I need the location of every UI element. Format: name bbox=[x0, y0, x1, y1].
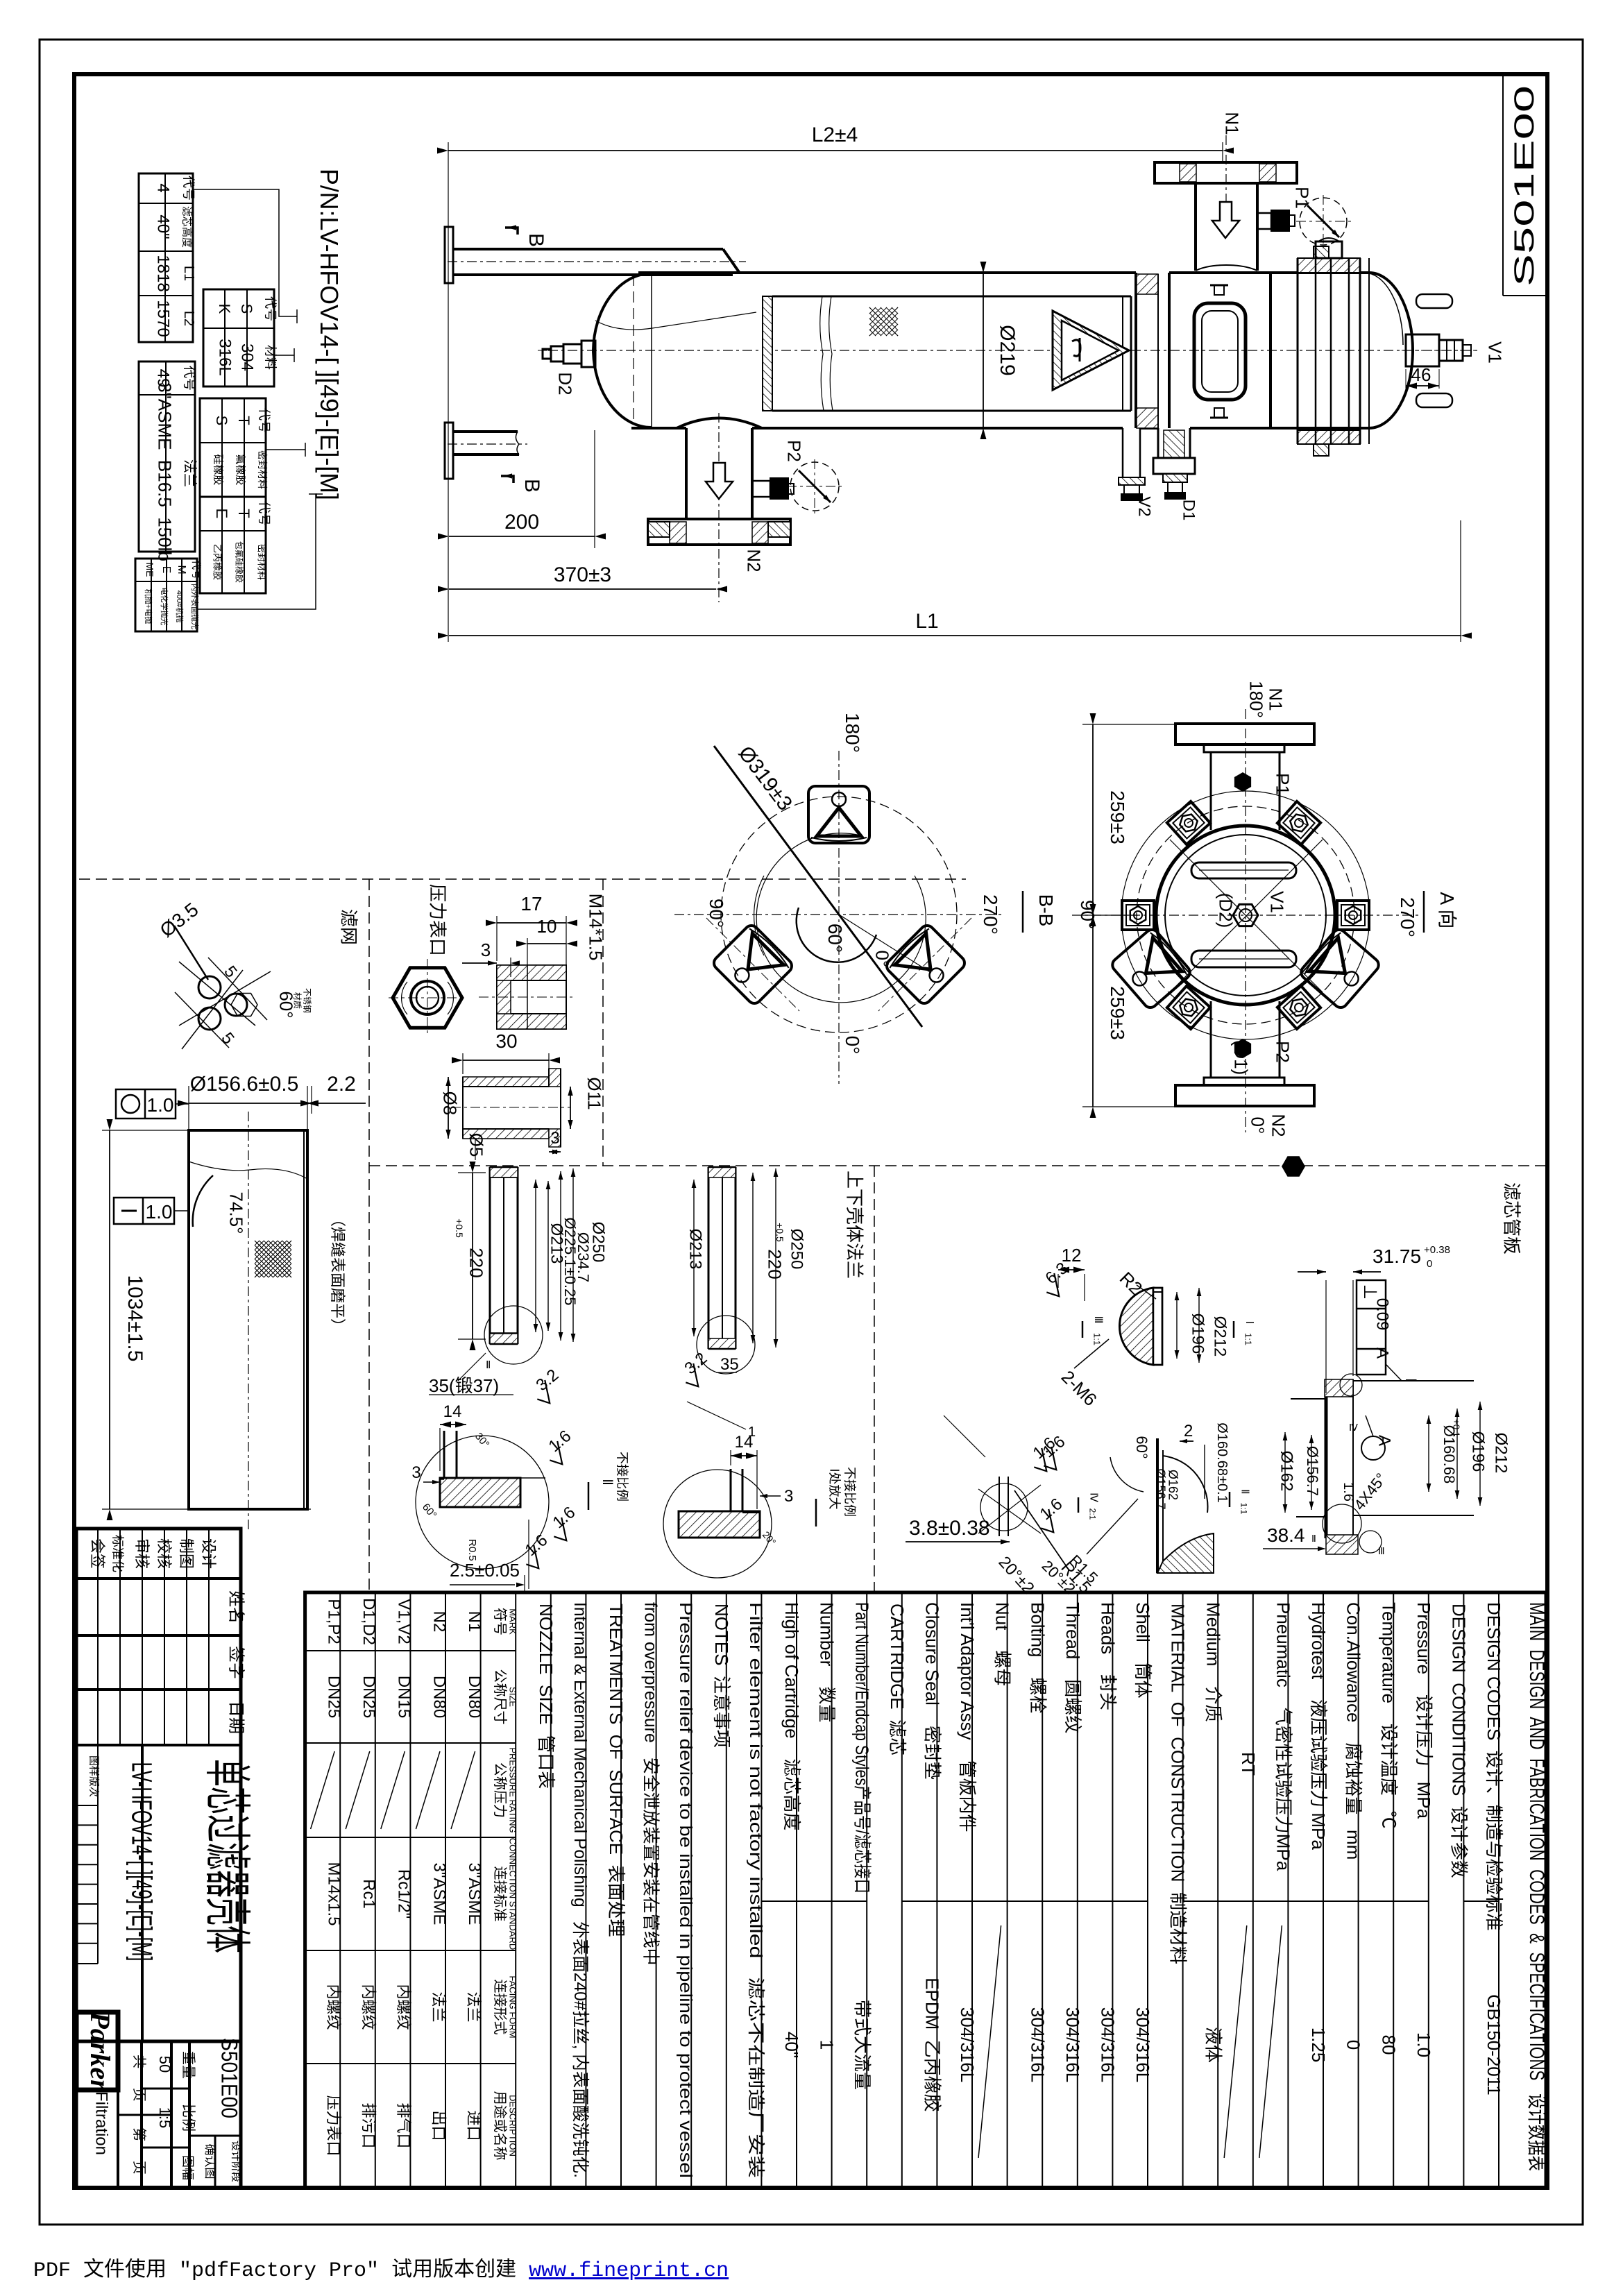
svg-text:3.8±0.38: 3.8±0.38 bbox=[909, 1517, 990, 1540]
svg-text:S: S bbox=[238, 304, 255, 314]
svg-text:硅橡胶: 硅橡胶 bbox=[212, 454, 223, 485]
title block outline bbox=[76, 1529, 241, 2188]
svg-text:Internal & External Mechanical: Internal & External Mechanical Polishing… bbox=[570, 1602, 590, 2178]
svg-text:Rc1/2": Rc1/2" bbox=[395, 1869, 414, 1919]
svg-text:Ø156.7: Ø156.7 bbox=[1304, 1446, 1321, 1496]
svg-text:+0.1: +0.1 bbox=[1452, 1419, 1462, 1437]
svg-text:Shell 筒体: Shell 筒体 bbox=[1132, 1602, 1153, 1699]
svg-text:1.0: 1.0 bbox=[146, 1201, 173, 1223]
svg-text:V2: V2 bbox=[1135, 496, 1154, 516]
svg-text:220: 220 bbox=[764, 1249, 785, 1279]
svg-text:17: 17 bbox=[520, 893, 542, 915]
svg-text:内螺纹: 内螺纹 bbox=[395, 1984, 412, 2030]
section B-B diagonals bbox=[1170, 840, 1323, 992]
svg-text:进口: 进口 bbox=[465, 2110, 482, 2141]
svg-text:ME: ME bbox=[144, 563, 155, 577]
svg-text:+0.5: +0.5 bbox=[454, 1218, 465, 1238]
svg-text:Ø250: Ø250 bbox=[589, 1222, 608, 1263]
N2 flange bbox=[648, 519, 790, 545]
svg-text:公称尺寸: 公称尺寸 bbox=[492, 1669, 508, 1725]
svg-text:不接比例: 不接比例 bbox=[615, 1452, 629, 1502]
svg-text:14: 14 bbox=[443, 1402, 462, 1421]
svg-text:V1,V2: V1,V2 bbox=[395, 1599, 414, 1644]
svg-text:标准化: 标准化 bbox=[110, 1535, 124, 1572]
svg-text:0: 0 bbox=[1427, 1258, 1432, 1270]
svg-text:35(锻37): 35(锻37) bbox=[429, 1375, 499, 1396]
svg-text:259±3: 259±3 bbox=[1107, 790, 1128, 844]
warning plates B-B bbox=[1110, 927, 1193, 1010]
svg-text:Hydrotest 液压试验压力 MPa: Hydrotest 液压试验压力 MPa bbox=[1308, 1602, 1329, 1850]
detail II dims bbox=[439, 1428, 441, 1471]
svg-text:N1: N1 bbox=[1265, 688, 1286, 711]
svg-text:DN15: DN15 bbox=[395, 1676, 414, 1718]
svg-text:0°: 0° bbox=[1247, 1117, 1268, 1134]
svg-text:Parker: Parker bbox=[85, 2011, 116, 2091]
svg-text:304/316L: 304/316L bbox=[1097, 2007, 1118, 2082]
svg-text:3: 3 bbox=[411, 1463, 420, 1482]
svg-text:3: 3 bbox=[481, 939, 491, 960]
svg-text:K: K bbox=[216, 304, 233, 314]
svg-text:High of Cartridge 滤芯高度: High of Cartridge 滤芯高度 bbox=[781, 1602, 802, 1830]
svg-text:材质: 材质 bbox=[292, 992, 302, 1009]
svg-text:I处放大: I处放大 bbox=[827, 1468, 841, 1509]
svg-text:1:1: 1:1 bbox=[1092, 1333, 1103, 1345]
svg-text:（焊缝表面磨平）: （焊缝表面磨平） bbox=[329, 1211, 346, 1334]
svg-text:设计: 设计 bbox=[200, 1538, 217, 1569]
svg-text:14: 14 bbox=[735, 1433, 754, 1452]
title block bottom band bbox=[76, 2040, 241, 2043]
dimension 200 bbox=[594, 430, 595, 548]
svg-text:304/316L: 304/316L bbox=[1027, 2007, 1048, 2082]
svg-text:代号: 代号 bbox=[263, 296, 277, 321]
section pipe B lower bbox=[445, 423, 453, 479]
svg-text:0: 0 bbox=[1343, 2040, 1364, 2050]
svg-text:图样版次: 图样版次 bbox=[87, 1755, 99, 1797]
hex node on dashed line bbox=[1282, 1156, 1305, 1176]
B-B nozzle N2 bbox=[1175, 1085, 1314, 1106]
svg-text:V1: V1 bbox=[1484, 341, 1505, 364]
svg-text:E: E bbox=[213, 509, 230, 519]
svg-text:MAIN DESIGN AND FABRICATION: MAIN DESIGN AND FABRICATION CODES & SPEC… bbox=[1525, 1602, 1548, 2171]
svg-text:Ⅲ: Ⅲ bbox=[1378, 1545, 1385, 1556]
svg-text:Ø5: Ø5 bbox=[466, 1133, 486, 1157]
section B-B centerlines bbox=[1245, 709, 1246, 1132]
closure flange mid bbox=[1135, 273, 1137, 428]
svg-text:180°: 180° bbox=[842, 713, 863, 753]
svg-text:1.0: 1.0 bbox=[1413, 2032, 1434, 2057]
svg-text:NOTES 注意事项: NOTES 注意事项 bbox=[711, 1604, 732, 1748]
svg-text:304/316L: 304/316L bbox=[1132, 2007, 1153, 2082]
tube sheet dims bbox=[1284, 1432, 1286, 1513]
tube weld arc 74.5 bbox=[193, 1175, 213, 1227]
tube sheet half disc detail bbox=[1119, 1288, 1153, 1365]
svg-text:Filter element is not factory: Filter element is not factory installed … bbox=[746, 1602, 765, 2178]
svg-text:Ⅱ: Ⅱ bbox=[486, 1359, 491, 1371]
svg-text:1034±1.5: 1034±1.5 bbox=[124, 1275, 146, 1362]
svg-text:304: 304 bbox=[238, 343, 257, 371]
svg-text:(D1): (D1) bbox=[1230, 1040, 1251, 1075]
drawing number stamp box S501E00 bbox=[1502, 76, 1504, 296]
svg-text:Pneumatic 气密性试验压力MPa: Pneumatic 气密性试验压力MPa bbox=[1273, 1602, 1293, 1871]
nozzle D2 bbox=[581, 341, 595, 367]
svg-text:1:5: 1:5 bbox=[156, 2107, 173, 2129]
drawing title text bbox=[201, 1759, 253, 1953]
svg-text:R0.5: R0.5 bbox=[466, 1539, 478, 1561]
svg-text:代号: 代号 bbox=[181, 176, 195, 201]
edge detail dims bbox=[1180, 1440, 1193, 1442]
section marker B upper bbox=[505, 228, 518, 235]
nozzle V2 drain bbox=[1122, 428, 1124, 477]
tube mesh symbol bbox=[255, 1241, 291, 1277]
svg-text:符号: 符号 bbox=[492, 1608, 508, 1635]
svg-text:氟橡胶: 氟橡胶 bbox=[234, 454, 246, 485]
svg-text:日期: 日期 bbox=[227, 1701, 246, 1734]
60 degree arc bbox=[797, 908, 876, 962]
svg-text:M: M bbox=[176, 565, 187, 574]
dims bushing upper bbox=[496, 916, 498, 961]
svg-text:NOZZLE SIZE 管口表: NOZZLE SIZE 管口表 bbox=[536, 1604, 556, 1789]
svg-text:316L: 316L bbox=[216, 339, 235, 375]
svg-text:Con.Allowance 腐蚀裕量 mm: Con.Allowance 腐蚀裕量 mm bbox=[1343, 1602, 1364, 1860]
svg-text:Medium 介质: Medium 介质 bbox=[1203, 1602, 1223, 1722]
svg-text:0°: 0° bbox=[842, 1036, 863, 1055]
svg-text:P1: P1 bbox=[1291, 187, 1312, 209]
svg-text:图幅: 图幅 bbox=[180, 2155, 194, 2180]
svg-text:D1,D2: D1,D2 bbox=[359, 1598, 378, 1645]
flow arrow N2 bbox=[706, 463, 733, 499]
dimension 370 bbox=[449, 588, 716, 590]
svg-text:3"ASME: 3"ASME bbox=[430, 1863, 448, 1925]
flange left weld balloon bbox=[484, 1306, 543, 1364]
svg-text:L2: L2 bbox=[181, 311, 196, 326]
B-B nozzle N1 bbox=[1175, 724, 1314, 745]
svg-text:from overpressure 安全泄放装置安装在管: from overpressure 安全泄放装置安装在管线中 bbox=[640, 1602, 660, 1966]
svg-text:12: 12 bbox=[1062, 1245, 1082, 1266]
svg-text:Part Number/Endcap Styles产品号/滤: Part Number/Endcap Styles产品号/滤芯接口 bbox=[851, 1602, 872, 1894]
svg-text:Ø160.68±0.1: Ø160.68±0.1 bbox=[1214, 1422, 1230, 1503]
svg-text:Ⅳ: Ⅳ bbox=[1349, 1422, 1358, 1433]
svg-text:Ⅱ: Ⅱ bbox=[1311, 1533, 1316, 1544]
dimension phi219 bbox=[902, 272, 999, 273]
svg-text:Ⅳ: Ⅳ bbox=[1087, 1493, 1099, 1502]
orientation inner arcs bbox=[754, 876, 764, 955]
svg-text:TREATMENTS OF SURFACE 表面处理: TREATMENTS OF SURFACE 表面处理 bbox=[606, 1604, 627, 1937]
svg-text:Ø156.7: Ø156.7 bbox=[1153, 1468, 1167, 1509]
svg-text:Ø11: Ø11 bbox=[584, 1077, 604, 1109]
svg-text:V1: V1 bbox=[1266, 891, 1287, 913]
svg-text:Ø8: Ø8 bbox=[439, 1091, 460, 1116]
svg-text:Temperature 设计温度 ℃: Temperature 设计温度 ℃ bbox=[1378, 1602, 1399, 1829]
nozzle N2 bbox=[685, 428, 688, 519]
svg-text:S501E00: S501E00 bbox=[217, 2038, 243, 2118]
gauge boss on closure bbox=[1316, 241, 1342, 258]
corner weld detail II bbox=[416, 1436, 549, 1569]
closure flange right bbox=[1269, 273, 1272, 428]
pressure gauge P1 bbox=[1257, 213, 1271, 229]
svg-text:Ø219: Ø219 bbox=[996, 325, 1019, 375]
dims tube lower bbox=[462, 1053, 464, 1074]
svg-text:Ø196: Ø196 bbox=[1469, 1431, 1488, 1472]
svg-text:P/N:LV-HFOV14-[ ][49]-[E]-[M]: P/N:LV-HFOV14-[ ][49]-[E]-[M] bbox=[315, 169, 343, 500]
svg-text:连接形式: 连接形式 bbox=[492, 1980, 508, 2035]
svg-text:PDF 文件使用 "pdfFactory Pro" 试用版本: PDF 文件使用 "pdfFactory Pro" 试用版本创建 www.fin… bbox=[33, 2258, 729, 2283]
svg-text:1.0: 1.0 bbox=[147, 1094, 174, 1116]
svg-text:代号: 代号 bbox=[257, 408, 271, 433]
flange right dims bbox=[693, 1180, 695, 1336]
svg-text:P1: P1 bbox=[1272, 773, 1293, 795]
nozzle D1 drain bbox=[1157, 428, 1159, 458]
svg-text:+0.38: +0.38 bbox=[1424, 1244, 1450, 1256]
svg-text:Heads 封头: Heads 封头 bbox=[1097, 1602, 1118, 1710]
svg-text:40": 40" bbox=[154, 214, 173, 239]
svg-text:Ø156.6±0.5: Ø156.6±0.5 bbox=[190, 1073, 299, 1096]
svg-text:Ⅱ: Ⅱ bbox=[600, 1479, 615, 1486]
svg-text:内外表面抛光: 内外表面抛光 bbox=[190, 584, 200, 629]
screen leader phi3.5 bbox=[174, 926, 208, 980]
svg-text:密封材料: 密封材料 bbox=[257, 450, 268, 489]
svg-text:DN80: DN80 bbox=[465, 1676, 484, 1718]
svg-text:90°: 90° bbox=[706, 899, 727, 928]
svg-text:乙丙橡胶: 乙丙橡胶 bbox=[212, 544, 223, 580]
flow arrow N1 bbox=[1212, 202, 1239, 238]
svg-text:(D2): (D2) bbox=[1215, 893, 1236, 928]
svg-text:1:1: 1:1 bbox=[1239, 1503, 1248, 1515]
svg-text:Ⅱ: Ⅱ bbox=[1239, 1489, 1250, 1494]
svg-text:D2: D2 bbox=[554, 372, 575, 395]
P/N table seal material 1 bbox=[200, 398, 266, 497]
svg-text:Rc1: Rc1 bbox=[359, 1879, 378, 1909]
svg-text:60°: 60° bbox=[824, 924, 846, 953]
construction dashed line long middle bbox=[369, 1165, 1546, 1166]
filter cartridge bbox=[763, 296, 772, 411]
svg-text:单芯过滤器壳体: 单芯过滤器壳体 bbox=[201, 1759, 253, 1953]
svg-text:Closure Seal 密封垫: Closure Seal 密封垫 bbox=[921, 1602, 942, 1780]
flange right weld balloon bbox=[697, 1316, 755, 1374]
svg-text:A 向: A 向 bbox=[1436, 892, 1458, 929]
svg-text:FACING FORM: FACING FORM bbox=[508, 1975, 518, 2038]
nozzle V1 bbox=[1406, 334, 1439, 366]
svg-text:上下壳体法兰: 上下壳体法兰 bbox=[844, 1171, 865, 1279]
svg-text:L1: L1 bbox=[181, 266, 196, 281]
svg-text:DESIGN CONDITIONS 设计参数: DESIGN CONDITIONS 设计参数 bbox=[1448, 1604, 1469, 1878]
svg-text:220: 220 bbox=[466, 1248, 486, 1277]
datum circle A bbox=[1361, 1436, 1385, 1460]
svg-text:电化学抛光: 电化学抛光 bbox=[160, 588, 169, 626]
Parker logo bbox=[76, 2012, 118, 2090]
svg-text:MARK: MARK bbox=[508, 1608, 518, 1635]
svg-text:31.75: 31.75 bbox=[1373, 1245, 1421, 1267]
svg-text:SIZE: SIZE bbox=[508, 1687, 518, 1707]
svg-text:包氟硅橡胶: 包氟硅橡胶 bbox=[234, 541, 244, 583]
center hex nut bbox=[1233, 904, 1258, 926]
stud pins right head bbox=[1416, 294, 1452, 308]
svg-text:用途或名称: 用途或名称 bbox=[492, 2091, 508, 2161]
svg-text:Filtration: Filtration bbox=[92, 2091, 111, 2155]
svg-text:10: 10 bbox=[537, 916, 557, 937]
svg-text:内螺纹: 内螺纹 bbox=[325, 1984, 342, 2030]
label detail II scale bbox=[588, 1482, 590, 1510]
svg-text:DN25: DN25 bbox=[359, 1676, 378, 1718]
svg-text:M14x1.5: M14x1.5 bbox=[325, 1862, 343, 1925]
svg-text:3: 3 bbox=[784, 1487, 793, 1506]
svg-text:Ⅲ: Ⅲ bbox=[1092, 1316, 1104, 1323]
svg-text:80: 80 bbox=[1378, 2035, 1399, 2055]
flange left dim 220 bbox=[458, 1172, 486, 1173]
svg-text:带式大流量: 带式大流量 bbox=[851, 2000, 872, 2090]
svg-text:270°: 270° bbox=[980, 894, 1001, 935]
svg-text:400#机抛: 400#机抛 bbox=[175, 590, 185, 622]
svg-text:304/316L: 304/316L bbox=[1062, 2007, 1083, 2082]
svg-text:Pressure 设计压力 MPa: Pressure 设计压力 MPa bbox=[1413, 1602, 1434, 1819]
svg-text:DN80: DN80 bbox=[430, 1676, 448, 1718]
svg-text:DESCRIPTION: DESCRIPTION bbox=[508, 2095, 518, 2157]
svg-text:38.4: 38.4 bbox=[1267, 1524, 1305, 1546]
svg-text:N1: N1 bbox=[1221, 112, 1242, 135]
svg-text:L1: L1 bbox=[915, 610, 938, 633]
svg-text:D1: D1 bbox=[1180, 500, 1198, 521]
svg-text:180°: 180° bbox=[1246, 681, 1266, 718]
P/N table seal material 2 bbox=[200, 497, 266, 593]
svg-text:0°: 0° bbox=[872, 951, 892, 968]
svg-text:2.5±0.05: 2.5±0.05 bbox=[450, 1560, 520, 1581]
dimension 2.2 bbox=[311, 1086, 312, 1114]
svg-text:出口: 出口 bbox=[430, 2110, 448, 2141]
svg-text:Ø213: Ø213 bbox=[686, 1229, 705, 1270]
svg-text:连接标准: 连接标准 bbox=[492, 1866, 508, 1922]
svg-text:1:1: 1:1 bbox=[1243, 1333, 1254, 1345]
svg-text:60°: 60° bbox=[1133, 1436, 1150, 1459]
svg-text:法兰: 法兰 bbox=[430, 1991, 448, 2022]
svg-text:B: B bbox=[525, 233, 547, 247]
svg-text:Ø212: Ø212 bbox=[1492, 1433, 1511, 1474]
svg-text:I: I bbox=[1402, 1378, 1420, 1382]
tube sheet main section bbox=[1325, 1397, 1328, 1538]
svg-text:Ø162: Ø162 bbox=[1166, 1470, 1180, 1500]
svg-text:姓名: 姓名 bbox=[227, 1590, 246, 1624]
construction dashed verticals bbox=[368, 879, 370, 1591]
element tube view bbox=[189, 1130, 307, 1509]
svg-text:Ø196: Ø196 bbox=[1189, 1313, 1207, 1354]
half disc dims bbox=[1058, 1269, 1085, 1270]
svg-text:Int'l Adaptor Assy 管板内件: Int'l Adaptor Assy 管板内件 bbox=[957, 1602, 978, 1832]
svg-text:A: A bbox=[1373, 1347, 1392, 1359]
flange left dia dims bbox=[535, 1180, 536, 1332]
svg-text:内螺纹: 内螺纹 bbox=[359, 1984, 377, 2030]
svg-text:共 页: 共 页 bbox=[131, 2055, 147, 2102]
section pipe B upper bbox=[445, 227, 453, 283]
svg-text:Thread 圆螺纹: Thread 圆螺纹 bbox=[1062, 1602, 1083, 1733]
svg-text:40": 40" bbox=[781, 2032, 802, 2058]
orientation plate lower-left bbox=[711, 923, 794, 1006]
svg-text:CARTRIDGE 滤芯: CARTRIDGE 滤芯 bbox=[887, 1604, 908, 1755]
svg-text:比例: 比例 bbox=[180, 2104, 196, 2132]
gauge bushing section upper bbox=[497, 965, 566, 1029]
P/N table material bbox=[203, 289, 274, 386]
svg-text:机抛+电抛: 机抛+电抛 bbox=[144, 589, 153, 624]
svg-text:L2±4: L2±4 bbox=[812, 124, 858, 146]
datum target frame bbox=[1357, 1280, 1386, 1375]
warning label triangle on shell bbox=[1053, 311, 1129, 390]
svg-text:3"ASME B16.5 150lb: 3"ASME B16.5 150lb bbox=[154, 382, 175, 561]
nozzle N1 bbox=[1225, 135, 1227, 208]
svg-text:EPDM 乙丙橡胶: EPDM 乙丙橡胶 bbox=[921, 1978, 942, 2112]
svg-text:B-B: B-B bbox=[1035, 894, 1057, 927]
svg-text:DESIGN CODES 设计、制造与检验标准: DESIGN CODES 设计、制造与检验标准 bbox=[1484, 1602, 1504, 1931]
svg-text:1.25: 1.25 bbox=[1308, 2027, 1329, 2063]
dimension L1 bbox=[1460, 520, 1461, 642]
orientation plate centerlines bbox=[706, 918, 799, 1011]
svg-text:259±3: 259±3 bbox=[1107, 986, 1128, 1040]
P/N table flange bbox=[139, 362, 195, 552]
svg-text:第 页: 第 页 bbox=[131, 2127, 147, 2175]
svg-text:1818: 1818 bbox=[154, 255, 173, 291]
section marker B lower bbox=[501, 476, 513, 483]
svg-text:LV-HFOV14-[ ][49]-[E]-[M]: LV-HFOV14-[ ][49]-[E]-[M] bbox=[126, 1762, 157, 1962]
svg-text:RT: RT bbox=[1238, 1752, 1259, 1776]
svg-text:N2: N2 bbox=[430, 1611, 448, 1633]
svg-text:法兰: 法兰 bbox=[465, 1991, 482, 2022]
title area bbox=[97, 1745, 99, 1964]
closure clamp handle bbox=[1194, 303, 1246, 400]
construction dashed line upper bbox=[79, 878, 966, 880]
svg-text:压力表口: 压力表口 bbox=[427, 884, 448, 956]
vessel shell bbox=[638, 271, 1136, 274]
svg-text:MATERIAL OF CONSTRUCTION 制造: MATERIAL OF CONSTRUCTION 制造材料 bbox=[1168, 1604, 1189, 1964]
svg-text:46: 46 bbox=[1411, 364, 1431, 385]
svg-text:不接比例: 不接比例 bbox=[842, 1467, 856, 1517]
svg-text:会签: 会签 bbox=[89, 1538, 106, 1569]
svg-text:35: 35 bbox=[720, 1355, 739, 1374]
phi319 leader line bbox=[714, 746, 922, 1027]
svg-text:重量: 重量 bbox=[180, 2051, 196, 2079]
svg-text:Ø162: Ø162 bbox=[1277, 1451, 1296, 1492]
dimension 259 upper bbox=[1082, 724, 1180, 725]
svg-text:确认图: 确认图 bbox=[203, 2144, 216, 2179]
svg-text:T: T bbox=[235, 509, 253, 518]
P/N table surface treatment bbox=[135, 559, 197, 631]
svg-text:50: 50 bbox=[156, 2056, 173, 2073]
orientation view centerlines bbox=[838, 751, 840, 1084]
P/N leader lines bbox=[193, 189, 297, 316]
svg-text:DN25: DN25 bbox=[325, 1676, 343, 1718]
svg-text:Ø212: Ø212 bbox=[1211, 1316, 1230, 1357]
svg-text:30: 30 bbox=[495, 1030, 517, 1052]
svg-text:Pressure relief device to be i: Pressure relief device to be installed i… bbox=[676, 1602, 695, 2178]
svg-text:0.09: 0.09 bbox=[1373, 1298, 1392, 1331]
svg-text:S: S bbox=[213, 416, 230, 426]
svg-text:270°: 270° bbox=[1397, 897, 1418, 937]
svg-text:N1: N1 bbox=[465, 1611, 484, 1633]
svg-text:B: B bbox=[520, 479, 543, 493]
svg-text:200: 200 bbox=[504, 511, 539, 534]
svg-text:液体: 液体 bbox=[1203, 2027, 1223, 2063]
weld detail circles bbox=[1340, 1374, 1362, 1396]
svg-text:E: E bbox=[160, 566, 172, 574]
svg-text:I: I bbox=[1243, 1321, 1255, 1324]
svg-text:1570: 1570 bbox=[154, 300, 173, 337]
datum frame straightness bbox=[114, 1198, 174, 1224]
right head bbox=[1368, 258, 1370, 444]
svg-text:N2: N2 bbox=[1268, 1114, 1289, 1137]
svg-text:3: 3 bbox=[550, 1129, 559, 1148]
svg-text:密封材料: 密封材料 bbox=[257, 544, 267, 580]
svg-text:370±3: 370±3 bbox=[554, 563, 611, 586]
main view centerline bbox=[548, 350, 1478, 351]
svg-text:2:1: 2:1 bbox=[1087, 1508, 1097, 1520]
hex plug face view bbox=[393, 968, 462, 1028]
0 degree line bbox=[839, 915, 931, 973]
orientation bolt circle bbox=[721, 797, 957, 1032]
